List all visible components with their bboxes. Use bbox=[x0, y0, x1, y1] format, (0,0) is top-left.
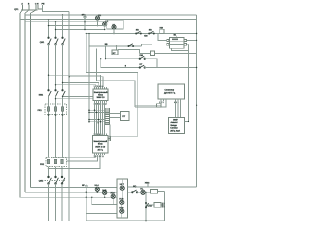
node motor line4 b bbox=[100, 121, 102, 123]
wire tap to module M1 b bbox=[56, 84, 97, 86]
relay UM tick bbox=[147, 184, 149, 187]
panel lamp 3 lead bbox=[121, 205, 123, 219]
svg-text:Электронный: Электронный bbox=[93, 140, 107, 143]
terminal N tick bbox=[38, 5, 43, 9]
wire rail L3 top bbox=[25, 14, 197, 16]
node bottom return bbox=[145, 220, 146, 221]
svg-text:ДА-НЕТ Гц: ДА-НЕТ Гц bbox=[164, 92, 176, 95]
contact KT1 bbox=[128, 44, 134, 47]
node control rail left bbox=[86, 33, 87, 34]
node B1 right out bbox=[196, 40, 197, 41]
fuse SF2 circle bbox=[85, 185, 87, 187]
wire right drop V164 bbox=[163, 191, 165, 220]
wire bottom rail 1 bbox=[31, 187, 118, 189]
node branch A / V55.5 bbox=[55, 21, 56, 22]
node tap a bbox=[62, 82, 63, 83]
panel lamp 3 bbox=[120, 209, 124, 213]
node SF2 mid bbox=[86, 192, 87, 193]
node SF2 bottom bbox=[86, 197, 87, 198]
fuse SF2 bbox=[85, 184, 87, 197]
wire rail2 right of panel bbox=[128, 191, 133, 193]
wire lamp to coil bbox=[145, 191, 150, 193]
wire M2 out3 cross bbox=[49, 155, 101, 169]
lamp HL5 leads bbox=[104, 195, 106, 198]
bus A vertical bbox=[19, 13, 21, 197]
node row3 drop bbox=[105, 58, 106, 59]
node rail L3 / V62.5 bbox=[62, 14, 63, 15]
fuse SF1 circle bbox=[84, 16, 86, 18]
node motor line3 b bbox=[98, 119, 100, 121]
svg-text:ЭМУ: ЭМУ bbox=[173, 119, 178, 122]
node FR1 out 3 bbox=[62, 114, 64, 116]
wire KM1 to FR1 phase3 bbox=[62, 96, 64, 157]
node KT tap bbox=[116, 45, 117, 46]
node rail L2 / V48.5 bbox=[48, 19, 49, 20]
bus right vertical bbox=[196, 15, 198, 187]
wire tap M1 left b bbox=[56, 98, 94, 100]
lamp HL3 symbol bbox=[112, 25, 116, 29]
node motor line2 a bbox=[88, 112, 90, 114]
wire rail L2 bbox=[20, 19, 197, 21]
module M1 top terminals bbox=[95, 87, 107, 89]
node out3 cross 1 bbox=[48, 168, 49, 169]
wire KA out to bus bbox=[155, 52, 197, 54]
wire B1 left top feed bbox=[158, 34, 167, 41]
node HL1 bbox=[97, 25, 98, 26]
lamp HL6 bbox=[111, 194, 115, 198]
wire row3 jog down bbox=[146, 59, 157, 68]
node row2 left bbox=[88, 45, 89, 46]
wire sel right verticals bbox=[176, 101, 181, 117]
connector XT box bbox=[121, 112, 130, 121]
power unit B1 inner lines bbox=[170, 41, 185, 44]
connector X3 box bbox=[157, 104, 162, 107]
wire panel bottom return bbox=[86, 214, 164, 221]
wire KV out bbox=[161, 204, 162, 206]
contact KM2 aux bbox=[139, 56, 146, 59]
switch QS1 pole 1 bbox=[48, 37, 51, 45]
wire QS1 to KM1 phase2 bbox=[55, 44, 57, 90]
contact KA1 bbox=[145, 202, 148, 208]
svg-text:QS2: QS2 bbox=[39, 180, 44, 183]
wire V89 drop bbox=[88, 34, 90, 122]
node tap row77 bbox=[69, 76, 70, 77]
node right bus 105 bbox=[196, 105, 197, 106]
wire QS1 to KM1 phase1 bbox=[48, 44, 50, 90]
selector bottom terminals left bbox=[161, 99, 166, 101]
wire B1 right low out bbox=[186, 43, 188, 45]
node out3 cross 2 bbox=[55, 168, 56, 169]
switch QS2 pole 1 bbox=[48, 176, 52, 184]
wire mid N tap bbox=[49, 25, 107, 27]
node row4 drop bbox=[100, 58, 101, 59]
contact SB2 bbox=[149, 31, 155, 34]
overload FR2 heater 2 bbox=[54, 159, 57, 163]
wire row3 drop bbox=[105, 46, 107, 59]
node panel feed bbox=[91, 197, 92, 198]
overload FR1 heater 2 bbox=[54, 107, 57, 111]
node motor line2 b bbox=[96, 112, 98, 114]
switch QS2 pole 3 bbox=[61, 176, 65, 184]
module M2 box bbox=[93, 136, 109, 154]
wire M2 out1 to FR2 bbox=[51, 155, 95, 158]
wire tap row77 bbox=[69, 77, 103, 87]
wire KT out bbox=[118, 50, 140, 54]
module M2 text bbox=[93, 140, 107, 152]
switch QS2 pole 2 bbox=[55, 176, 59, 184]
wire +24 drop bbox=[145, 192, 147, 221]
capacitor C1 bbox=[162, 203, 164, 208]
wire sense loop inner bbox=[86, 34, 138, 137]
wire KM1 to FR1 phase2 bbox=[55, 96, 57, 157]
wire branch A long rail bbox=[25, 21, 105, 23]
overload FR2 heater 3 bbox=[61, 159, 64, 163]
lamp HL4 leads bbox=[96, 187, 98, 192]
terminal C tick bbox=[35, 5, 37, 10]
bus B vertical bbox=[24, 13, 26, 192]
switch QS1 pole 3 bbox=[62, 37, 65, 45]
wire tap row75 bbox=[49, 75, 101, 87]
svg-text:ЭМУ-10: ЭМУ-10 bbox=[97, 96, 106, 99]
contact KM1 aux bbox=[136, 31, 142, 34]
module A3 right terminal bbox=[185, 121, 189, 123]
svg-text:25Гц 4мА: 25Гц 4мА bbox=[170, 130, 180, 133]
svg-text:КМ1: КМ1 bbox=[39, 93, 44, 96]
node tap b bbox=[55, 84, 56, 85]
wire tap to module M1 a bbox=[63, 82, 99, 84]
svg-text:КМ: КМ bbox=[144, 35, 147, 38]
wire sel left2 down bbox=[135, 101, 166, 107]
wire QS1 to KM1 phase3 bbox=[62, 44, 64, 90]
node out3 cross 3 bbox=[61, 168, 62, 169]
wire sense return bbox=[110, 135, 138, 137]
node control rail right bbox=[196, 33, 197, 34]
wire FR2 down 2 bbox=[55, 167, 57, 178]
lamp HL10 bbox=[141, 190, 145, 194]
power unit B1 top tick bbox=[176, 36, 178, 38]
coil KM1 box bbox=[160, 29, 164, 33]
node A3 right bbox=[188, 121, 189, 122]
module M2 right terminal 1 bbox=[108, 136, 110, 138]
wire motor line 1 bbox=[89, 109, 105, 111]
node tap M1 a bbox=[62, 96, 63, 97]
contactor KM1 pole 3 bbox=[62, 90, 65, 97]
wire jog phase B bbox=[25, 10, 29, 13]
switch QS2 link dashed bbox=[45, 179, 66, 181]
lamp HL2 bbox=[103, 22, 107, 26]
svg-text:Входа: Входа bbox=[171, 124, 178, 127]
terminal A tick bbox=[22, 5, 24, 10]
wire bottom rail 2 bbox=[25, 191, 117, 193]
wire row2 to B1 bbox=[142, 44, 153, 46]
node rail1 right end bbox=[196, 186, 198, 188]
panel lamp 2 bbox=[120, 200, 124, 204]
wire QS2 down 3 bbox=[61, 184, 63, 222]
svg-text:25 Гц: 25 Гц bbox=[97, 148, 103, 151]
overload FR1 dashed box bbox=[45, 104, 67, 115]
wire motor line 2 bbox=[89, 111, 105, 113]
node HL5 bbox=[104, 197, 105, 198]
node FR1 out 1 bbox=[48, 114, 50, 116]
wire bottom rail 3 bbox=[20, 196, 117, 198]
node HL4 bbox=[97, 192, 98, 193]
svg-text:SQ: SQ bbox=[133, 185, 136, 188]
wire sense loop outer bbox=[96, 49, 135, 108]
lamp HL2 leads bbox=[104, 22, 106, 30]
svg-text:Селектор: Селектор bbox=[165, 89, 175, 92]
wire SQ to lamp bbox=[137, 191, 141, 193]
wire sel left1 down bbox=[135, 101, 161, 105]
terminal B tick bbox=[28, 5, 30, 10]
wire FR2 down 1 bbox=[48, 167, 50, 178]
switch QS1 pole 2 bbox=[55, 37, 58, 45]
module M2 right terminal 2 bbox=[108, 139, 110, 141]
node tap row75 bbox=[48, 75, 49, 76]
lamp HL3 leads bbox=[113, 29, 115, 33]
wire QS2 down 1 bbox=[48, 184, 50, 222]
terminal strip XT ladder bbox=[105, 108, 109, 124]
node SF1 mid bbox=[84, 21, 85, 22]
module A3 box bbox=[169, 118, 185, 134]
relay KV box bbox=[154, 203, 161, 208]
module M1 box bbox=[93, 89, 108, 101]
power unit B1 left terminal 2 bbox=[167, 43, 169, 45]
wire FR2 down 3 bbox=[61, 167, 63, 178]
wire PE drop bbox=[43, 5, 70, 11]
node motor line3 a bbox=[88, 119, 90, 121]
node motor line1 a bbox=[88, 109, 90, 111]
node SF1 top bbox=[84, 14, 85, 15]
wire tap M1 left a bbox=[63, 95, 94, 97]
wire row4 to right bus bbox=[145, 67, 197, 69]
relay K1 box bbox=[151, 190, 158, 194]
wire KM1 to FR1 phase1 bbox=[48, 96, 50, 157]
wire QS2 down 2 bbox=[55, 184, 57, 222]
wire N rail mid bbox=[56, 29, 105, 31]
wire B1 right top out bbox=[186, 39, 196, 41]
wire control row 4 bbox=[101, 67, 140, 69]
contact SQ bbox=[132, 190, 138, 193]
power unit B1 left terminal 1 bbox=[167, 40, 169, 42]
selector bottom terminals right bbox=[176, 99, 181, 101]
node motor line1 b bbox=[94, 109, 96, 111]
contactor KM1 pole 1 bbox=[48, 90, 51, 97]
node V89 top bbox=[88, 33, 89, 34]
wire B1 bottom out bbox=[172, 48, 189, 50]
lamp HL5 bbox=[103, 190, 107, 194]
lamp HL6 leads bbox=[112, 198, 114, 204]
wire V188 right drop bbox=[188, 44, 190, 121]
overload FR1 heater 1 bbox=[47, 107, 50, 111]
wire KT drop bbox=[116, 46, 118, 50]
panel lamp 1 leads bbox=[121, 179, 123, 200]
node +24 drop top bbox=[145, 192, 146, 193]
power unit B1 box bbox=[170, 38, 185, 49]
wire phase drop 1 bbox=[48, 20, 50, 38]
svg-text:блок: блок bbox=[98, 143, 103, 146]
luminaire EL1 box bbox=[107, 20, 124, 29]
wire XT stub 1 bbox=[110, 113, 121, 115]
wire control row 3 bbox=[106, 58, 140, 60]
power unit B1 right terminal 1 bbox=[184, 40, 186, 42]
wire ladder bottom drop bbox=[109, 125, 111, 137]
wire PE vertical to bottom bbox=[68, 11, 70, 221]
wire panel feed 1 bbox=[92, 197, 117, 204]
contact KT2 bbox=[139, 65, 145, 68]
selector box A2 bbox=[158, 84, 185, 99]
module M2 bottom terminals bbox=[95, 153, 105, 155]
wire jog phase A bbox=[20, 10, 23, 13]
lamp HL1 bbox=[95, 16, 99, 20]
panel lamp 1 bbox=[120, 186, 124, 190]
wire motor line 4 bbox=[89, 121, 105, 123]
svg-text:М: М bbox=[97, 122, 99, 125]
node row4 bus bbox=[196, 67, 197, 68]
module A3 text bbox=[170, 119, 180, 133]
node N-rail tap bbox=[55, 29, 56, 30]
fuse SF1 bbox=[84, 15, 86, 30]
module M1 text bbox=[94, 91, 108, 99]
wire panel feed 2 bbox=[86, 197, 117, 213]
power unit B1 right terminal 2 bbox=[184, 43, 186, 45]
relay KT1 box bbox=[112, 50, 118, 55]
svg-text:Сигнал: Сигнал bbox=[170, 126, 178, 129]
wire phase drop 2 bbox=[55, 22, 57, 38]
wire rail1 right of panel bbox=[128, 186, 197, 188]
wire KA in bbox=[140, 52, 151, 54]
contactor KM1 pole 2 bbox=[55, 90, 58, 97]
svg-text:QS1: QS1 bbox=[40, 41, 45, 44]
wire KV in bbox=[146, 204, 154, 206]
wire motor line 3 bbox=[89, 119, 105, 121]
svg-text:УМЗ: УМЗ bbox=[145, 181, 150, 184]
wire M2 out2 to FR2 bbox=[67, 155, 98, 161]
bus C vertical bbox=[30, 13, 32, 187]
wire tap stubs up M1 bbox=[96, 83, 99, 88]
svg-text:KM: KM bbox=[140, 54, 143, 57]
overload FR2 heater 1 bbox=[47, 159, 50, 163]
wire row4 drop bbox=[100, 59, 102, 68]
node tap M1 b bbox=[55, 98, 56, 99]
power unit B1 inner marks bbox=[172, 39, 178, 41]
node SF1 bottom bbox=[84, 29, 85, 30]
module M1 bottom terminals bbox=[95, 101, 107, 103]
wire control row 2 bbox=[89, 45, 142, 47]
lamp HL4 bbox=[95, 187, 99, 191]
breaker QF1 bar bbox=[21, 9, 38, 11]
node HL2 bbox=[104, 29, 105, 30]
node tap on drop1 bbox=[48, 25, 49, 26]
lamp panel box bbox=[117, 179, 128, 218]
overload FR2 dashed box bbox=[46, 158, 67, 167]
module M2 top terminals bbox=[95, 134, 107, 136]
lamp HL1 leads bbox=[97, 15, 99, 26]
wire XT stub 2 bbox=[110, 117, 121, 119]
wire jog phase C bbox=[31, 10, 37, 13]
wire coil out bbox=[158, 190, 165, 192]
wire cap to V164 bbox=[163, 204, 165, 206]
node motor line4 a bbox=[88, 121, 90, 123]
node row4 v188 bbox=[188, 67, 189, 68]
node sense return bbox=[109, 136, 110, 137]
overload FR1 heater 3 bbox=[61, 107, 64, 111]
wire M1 outputs down bbox=[95, 102, 105, 133]
svg-text:ЭМУ 2-10: ЭМУ 2-10 bbox=[95, 145, 106, 148]
node FR1 out 2 bbox=[55, 114, 57, 116]
svg-text:Аналог: Аналог bbox=[171, 121, 178, 124]
wire control rail KM bbox=[86, 33, 196, 35]
relay KA box bbox=[151, 51, 155, 56]
wire phase drop 3 bbox=[62, 15, 64, 38]
